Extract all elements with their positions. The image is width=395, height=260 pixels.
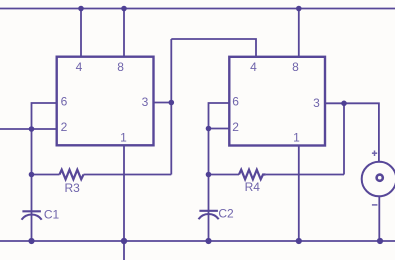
wire R3 right lead to node B (84, 174, 172, 176)
junction ground x124 (121, 238, 127, 244)
wire U1 pin 2 to left edge (0, 128, 57, 130)
svg-text:4: 4 (250, 60, 257, 74)
junction R3 left (29, 172, 35, 178)
wire R4 left lead (209, 174, 240, 176)
junction node B (169, 100, 175, 106)
junction R4 left (206, 172, 212, 178)
junction U1 pin2 node (29, 126, 35, 132)
op-amp U1 555 timer body (57, 57, 154, 146)
svg-text:6: 6 (61, 95, 68, 109)
junction top rail x298.8 (296, 6, 302, 12)
junction top rail x81 (78, 6, 84, 12)
wire U1 pin 1 to ground (123, 145, 125, 241)
svg-text:4: 4 (76, 60, 83, 74)
junction node D (341, 101, 347, 107)
svg-text:6: 6 (232, 95, 239, 109)
wire U2 pin 8 to top rail (298, 9, 300, 58)
svg-text:3: 3 (313, 96, 320, 110)
wire node A vertical to C1 and ground (31, 129, 33, 241)
wire node D vertical (343, 103, 345, 174)
polarity label plus (372, 151, 377, 157)
capacitor C2 (199, 211, 219, 219)
svg-text:R4: R4 (245, 180, 261, 194)
wire top power rail (0, 8, 395, 10)
wire R4 right lead to node D (266, 174, 344, 176)
wire U1 pin 4 to top rail (80, 9, 82, 57)
wire U2 pin 1 to ground (298, 145, 300, 241)
svg-text:8: 8 (292, 60, 299, 74)
wire node B vertical (170, 39, 172, 175)
wire U2 pin 2 stub (209, 128, 230, 130)
svg-text:3: 3 (142, 95, 149, 109)
wire R3 left lead (32, 174, 60, 176)
junction U2 pin2 node (206, 126, 212, 132)
speaker LS1 (362, 162, 395, 197)
svg-text:C2: C2 (218, 207, 234, 221)
junction ground x298.8 (296, 238, 302, 244)
junction ground x31.5 (28, 238, 34, 244)
wire bottom ground rail (0, 240, 395, 242)
svg-text:C1: C1 (44, 207, 60, 221)
wire U2 pin 3 to speaker plus (344, 103, 379, 161)
junction ground x208.5 (205, 238, 211, 244)
wire U1 pin 8 to top rail (123, 9, 125, 57)
wire U2 pin 3 stub (325, 102, 344, 104)
svg-text:8: 8 (117, 60, 124, 74)
svg-text:2: 2 (232, 120, 239, 134)
resistor R4 (239, 170, 266, 180)
wire node C vertical to C2 and ground (208, 129, 210, 242)
capacitor C1 (22, 211, 42, 219)
junction top rail x124 (121, 6, 127, 12)
resistor R3 (60, 170, 84, 180)
wire U2 pin 6 to pin 2 bracket (209, 103, 230, 129)
wire speaker minus to ground (378, 197, 380, 241)
polarity label minus (372, 204, 378, 206)
wire U1 pin 6 to pin 2 bracket (32, 103, 58, 129)
svg-text:R3: R3 (65, 181, 81, 195)
junction ground x380 (377, 238, 383, 244)
op-amp U2 555 timer body (229, 57, 325, 146)
wire ground stub below rail (123, 241, 125, 260)
svg-text:2: 2 (61, 120, 68, 134)
wire U1 pin 3 stub (154, 102, 172, 104)
svg-text:1: 1 (120, 131, 127, 145)
wire U1 pin3 link to U2 pin 4 (171, 39, 256, 57)
svg-text:1: 1 (293, 131, 300, 145)
